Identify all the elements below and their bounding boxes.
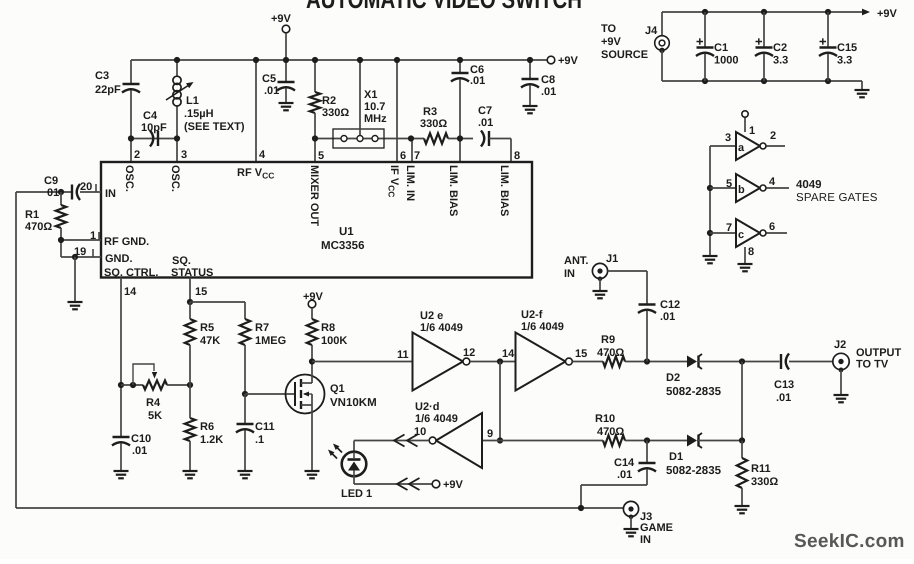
svg-text:10pF: 10pF: [141, 122, 167, 134]
svg-text:14: 14: [502, 348, 515, 360]
svg-text:AUTOMATIC VIDEO SWITCH: AUTOMATIC VIDEO SWITCH: [306, 0, 582, 14]
svg-text:C12: C12: [660, 299, 680, 311]
svg-text:C5: C5: [262, 73, 276, 85]
svg-text:C2: C2: [773, 42, 787, 54]
svg-text:R4: R4: [146, 397, 161, 409]
svg-text:12: 12: [463, 347, 475, 359]
svg-text:IN: IN: [564, 268, 575, 280]
svg-text:IN: IN: [640, 534, 651, 546]
svg-text:U2 e: U2 e: [420, 310, 443, 322]
svg-text:1000: 1000: [714, 55, 738, 67]
svg-text:R5: R5: [200, 322, 214, 334]
svg-text:TO TV: TO TV: [856, 359, 889, 371]
svg-text:RF GND.: RF GND.: [104, 236, 149, 248]
svg-text:C15: C15: [837, 42, 857, 54]
svg-text:MHz: MHz: [364, 113, 387, 125]
svg-text:OSC.: OSC.: [123, 165, 135, 192]
svg-text:47K: 47K: [200, 335, 220, 347]
svg-text:.01: .01: [541, 86, 556, 98]
svg-text:.01: .01: [264, 85, 279, 97]
svg-text:4: 4: [259, 149, 266, 161]
svg-text:5082-2835: 5082-2835: [666, 465, 722, 477]
svg-text:470Ω: 470Ω: [25, 221, 52, 233]
svg-text:R1: R1: [25, 209, 39, 221]
svg-text:+9V: +9V: [601, 36, 622, 48]
svg-text:8: 8: [748, 246, 754, 258]
svg-text:R2: R2: [322, 95, 336, 107]
svg-text:X1: X1: [364, 89, 377, 101]
svg-text:D1: D1: [669, 451, 683, 463]
svg-text:3: 3: [181, 149, 187, 161]
svg-text:C11: C11: [255, 421, 275, 433]
svg-text:R7: R7: [255, 322, 269, 334]
svg-text:U1: U1: [339, 226, 354, 238]
svg-text:7: 7: [726, 222, 732, 234]
svg-text:U2-f: U2-f: [521, 309, 543, 321]
svg-text:2: 2: [770, 130, 776, 142]
svg-text:SQ. CTRL.: SQ. CTRL.: [104, 267, 158, 279]
svg-text:b: b: [738, 184, 745, 196]
svg-text:MC3356: MC3356: [321, 240, 364, 252]
svg-text:+9V: +9V: [558, 55, 579, 67]
svg-text:1.2K: 1.2K: [200, 434, 223, 446]
svg-text:Q1: Q1: [330, 383, 345, 395]
svg-text:R11: R11: [751, 463, 771, 475]
svg-text:15: 15: [575, 348, 587, 360]
svg-text:R9: R9: [601, 334, 615, 346]
svg-text:330Ω: 330Ω: [420, 118, 447, 130]
svg-text:TO: TO: [601, 23, 617, 35]
svg-text:LIM. BIAS: LIM. BIAS: [498, 165, 510, 216]
svg-text:IN: IN: [105, 188, 116, 200]
svg-text:6: 6: [769, 221, 775, 233]
svg-text:15: 15: [195, 286, 207, 298]
svg-text:14: 14: [124, 286, 137, 298]
svg-text:C10: C10: [131, 433, 151, 445]
svg-text:L1: L1: [186, 95, 199, 107]
svg-text:LED 1: LED 1: [341, 488, 372, 500]
svg-text:5K: 5K: [148, 410, 162, 422]
svg-text:C7: C7: [478, 105, 492, 117]
svg-text:11: 11: [397, 349, 409, 361]
svg-text:U2·d: U2·d: [415, 401, 439, 413]
svg-text:ANT.: ANT.: [564, 255, 588, 267]
svg-text:C9: C9: [44, 175, 58, 187]
svg-text:1/6 4049: 1/6 4049: [521, 321, 564, 333]
svg-text:3.3: 3.3: [773, 55, 788, 67]
svg-text:R3: R3: [423, 106, 437, 118]
svg-text:.01: .01: [660, 311, 675, 323]
svg-text:470Ω: 470Ω: [597, 347, 624, 359]
svg-text:GND.: GND.: [105, 253, 133, 265]
svg-text:(SEE TEXT): (SEE TEXT): [184, 121, 245, 133]
svg-text:R10: R10: [595, 413, 615, 425]
svg-text:C1: C1: [714, 42, 728, 54]
svg-text:5082-2835: 5082-2835: [666, 386, 722, 398]
svg-text:22pF: 22pF: [95, 84, 121, 96]
svg-text:C4: C4: [143, 110, 158, 122]
svg-text:1/6 4049: 1/6 4049: [415, 413, 458, 425]
svg-text:a: a: [738, 142, 745, 154]
svg-text:+9V: +9V: [877, 8, 898, 20]
svg-text:C3: C3: [95, 70, 109, 82]
svg-text:.15µH: .15µH: [184, 108, 214, 120]
svg-text:01: 01: [47, 187, 59, 199]
svg-text:J1: J1: [606, 253, 618, 265]
svg-text:c: c: [738, 229, 744, 241]
svg-text:3.3: 3.3: [837, 55, 852, 67]
svg-text:C8: C8: [541, 74, 555, 86]
svg-text:330Ω: 330Ω: [751, 476, 778, 488]
svg-text:SPARE GATES: SPARE GATES: [796, 192, 878, 204]
svg-text:R6: R6: [200, 421, 214, 433]
svg-text:J4: J4: [645, 25, 658, 37]
svg-text:D2: D2: [666, 372, 680, 384]
svg-text:+9V: +9V: [443, 479, 464, 491]
svg-text:OSC.: OSC.: [169, 165, 181, 192]
svg-text:+9V: +9V: [303, 291, 324, 303]
svg-text:.01: .01: [132, 445, 147, 457]
svg-text:4049: 4049: [796, 179, 822, 191]
svg-text:6: 6: [400, 150, 406, 162]
svg-text:8: 8: [514, 150, 520, 162]
svg-text:.01: .01: [776, 392, 791, 404]
svg-text:.1: .1: [255, 434, 264, 446]
svg-text:9: 9: [487, 428, 493, 440]
svg-text:SeekIC.com: SeekIC.com: [794, 531, 905, 552]
svg-text:MIXER OUT: MIXER OUT: [308, 165, 320, 226]
svg-text:LIM. IN: LIM. IN: [404, 165, 416, 201]
svg-text:1MEG: 1MEG: [255, 335, 286, 347]
svg-text:470Ω: 470Ω: [597, 426, 624, 438]
svg-text:2: 2: [134, 149, 140, 161]
svg-text:1/6 4049: 1/6 4049: [420, 322, 463, 334]
svg-text:+9V: +9V: [271, 13, 292, 25]
svg-text:LIM. BIAS: LIM. BIAS: [447, 165, 459, 216]
svg-text:OUTPUT: OUTPUT: [856, 347, 902, 359]
svg-text:4: 4: [769, 176, 776, 188]
svg-text:5: 5: [318, 150, 324, 162]
svg-text:SQ.: SQ.: [172, 255, 191, 267]
svg-text:.01: .01: [478, 117, 493, 129]
svg-text:C14: C14: [614, 457, 635, 469]
svg-text:C13: C13: [774, 379, 794, 391]
svg-text:SOURCE: SOURCE: [601, 49, 648, 61]
svg-text:3: 3: [725, 132, 731, 144]
svg-text:R8: R8: [321, 322, 335, 334]
svg-text:.01: .01: [470, 75, 485, 87]
svg-text:GAME: GAME: [640, 522, 673, 534]
svg-text:VN10KM: VN10KM: [330, 397, 377, 409]
svg-text:100K: 100K: [321, 335, 347, 347]
svg-text:J2: J2: [834, 339, 846, 351]
svg-text:10.7: 10.7: [364, 101, 385, 113]
svg-text:7: 7: [414, 150, 420, 162]
svg-text:1: 1: [749, 125, 755, 137]
svg-text:.01: .01: [617, 469, 632, 481]
svg-text:330Ω: 330Ω: [322, 107, 349, 119]
svg-text:STATUS: STATUS: [171, 267, 213, 279]
svg-text:5: 5: [726, 178, 732, 190]
